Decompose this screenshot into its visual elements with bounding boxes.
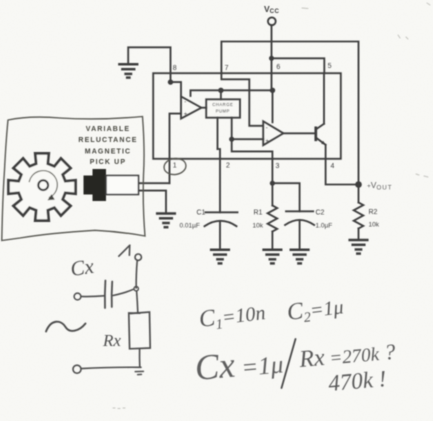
charge pump block xyxy=(206,99,240,117)
wire emitter to pin 4 xyxy=(325,145,327,159)
wire pin 2 to C1 xyxy=(219,159,221,213)
wire charge pump left leg to pin 2 xyxy=(217,118,219,149)
wire pin 8 node to comparator inverting input xyxy=(171,82,182,96)
svg-text:-: - xyxy=(184,100,186,106)
hand sketch: left terminal upper xyxy=(74,293,81,300)
wire internal top bus xyxy=(191,90,273,96)
wire pin 7 to op-amp 2 inverting input xyxy=(221,73,262,126)
svg-text:7: 7 xyxy=(225,65,229,72)
IC U1 package outline xyxy=(153,73,341,159)
hand sketch: bottom wire xyxy=(82,367,142,368)
junction dot Vout node xyxy=(355,181,362,188)
svg-text:+: + xyxy=(265,139,269,145)
svg-text:+: + xyxy=(184,112,188,118)
transistor Q1 xyxy=(316,124,326,145)
ground R2 xyxy=(350,240,368,254)
junction dot Vcc rail node xyxy=(269,56,274,61)
svg-text:-: - xyxy=(266,126,268,132)
wire Vcc to pin 5 xyxy=(272,58,325,73)
hand sketch: wire junction down to Rx xyxy=(137,291,138,312)
svg-text:VARIABLE: VARIABLE xyxy=(86,126,130,133)
wire op-amp 2 output to transistor base xyxy=(283,132,315,134)
faint scan marks xyxy=(113,3,430,409)
capacitor C1 xyxy=(180,210,238,250)
junction dot pin 3 node xyxy=(270,181,275,186)
junction dot charge pump leg xyxy=(229,137,234,142)
capacitor Cx plates xyxy=(105,281,112,309)
ground tick at bottom node xyxy=(135,371,143,374)
hand-drawn enclosure box around pickup xyxy=(2,117,145,241)
wire pin 4 to output node xyxy=(326,159,359,185)
wire charge pump to op-amp 2 non-inverting input and pin 3 xyxy=(232,118,264,140)
wire charge pump leg to pin 3 xyxy=(232,139,273,159)
resistor Rx box xyxy=(129,312,150,349)
hand sketch: junction loop xyxy=(134,287,138,291)
wire node to C2 xyxy=(272,183,299,211)
svg-text:2: 2 xyxy=(226,163,230,170)
label VARIABLE RELUCTANCE MAGNETIC PICK UP xyxy=(78,126,137,166)
ground top-left xyxy=(119,64,137,77)
resistor R2 xyxy=(354,185,380,240)
wire pickup lower terminal to ground xyxy=(139,191,167,213)
svg-text:RELUCTANCE: RELUCTANCE xyxy=(78,137,137,144)
resistor R1 xyxy=(253,183,278,249)
annotation circle around pin 1 xyxy=(163,157,187,176)
node Vcc terminal xyxy=(264,4,280,25)
hand sketch: left terminal lower xyxy=(73,365,81,373)
svg-text:5: 5 xyxy=(328,63,332,70)
svg-text:470k !: 470k ! xyxy=(327,366,387,396)
svg-text:0.01µF: 0.01µF xyxy=(180,223,200,230)
hand sketch: wire Rx down to bottom node xyxy=(139,349,141,367)
svg-text:MAGNETIC: MAGNETIC xyxy=(85,149,132,156)
capacitor C2 xyxy=(285,210,332,250)
hand sketch: wire Cx to junction xyxy=(113,289,134,295)
wire pin 8 interior stub xyxy=(170,73,172,82)
junction dot pin 8 node xyxy=(168,79,173,84)
wire pin 6 into IC to op-amp 2 top xyxy=(272,73,273,122)
svg-text:PICK UP: PICK UP xyxy=(90,159,126,166)
svg-text:C2: C2 xyxy=(316,210,325,217)
svg-text:C1: C1 xyxy=(197,210,206,217)
wire pin 8 to top ground xyxy=(128,47,170,73)
svg-text:R1: R1 xyxy=(254,210,263,217)
hand sketch: AC source tilde xyxy=(46,322,86,332)
svg-text:10k: 10k xyxy=(253,223,264,230)
svg-text:Cx: Cx xyxy=(69,254,96,281)
ground pickup return xyxy=(157,214,175,228)
ground C2 xyxy=(291,250,309,264)
handwritten slash xyxy=(282,339,296,388)
wire Vcc vertical down to pin 6 xyxy=(271,25,273,73)
wire pin 3 down xyxy=(271,159,273,183)
hand sketch: wire from node 1 down xyxy=(136,261,137,288)
wire stub bus to charge pump top xyxy=(220,90,222,99)
junction dot bus / charge pump xyxy=(218,88,223,93)
svg-text:Rx: Rx xyxy=(102,331,121,350)
svg-text:3: 3 xyxy=(276,163,280,170)
svg-text:CHARGE: CHARGE xyxy=(212,102,233,107)
wire pin 5 to collector xyxy=(323,73,325,124)
svg-text:1: 1 xyxy=(173,163,177,170)
svg-text:8: 8 xyxy=(173,65,177,72)
wire pin 1 to pickup upper terminal xyxy=(139,182,170,184)
gear toothed wheel xyxy=(8,153,75,220)
svg-text:1.0µF: 1.0µF xyxy=(316,223,333,230)
op-amp U1B xyxy=(263,121,283,145)
ground R1 xyxy=(264,250,282,264)
wire top supply rail xyxy=(221,42,358,185)
svg-text:R2: R2 xyxy=(369,209,378,216)
svg-text:6: 6 xyxy=(276,64,280,71)
junction dot bus / pin 6 xyxy=(270,88,275,93)
wire pin 1 to comparator non-inverting input xyxy=(170,114,182,184)
svg-text:10k: 10k xyxy=(369,222,380,229)
wire comparator output to charge pump xyxy=(201,107,206,109)
op-amp U1A input comparator xyxy=(181,96,201,118)
svg-text:PUMP: PUMP xyxy=(216,109,230,114)
hand sketch: wire terminal to Cx xyxy=(81,295,104,298)
ground C1 xyxy=(211,250,229,264)
hand sketch: node 1 arrow and terminal xyxy=(119,245,142,260)
wire pin 2 jog xyxy=(218,149,221,159)
svg-text:4: 4 xyxy=(331,163,335,170)
magnetic pickup body xyxy=(84,169,139,201)
